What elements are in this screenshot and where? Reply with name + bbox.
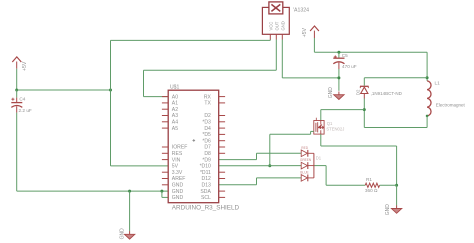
svg-text:RED: RED <box>301 146 308 150</box>
node L1 bottom <box>426 115 429 118</box>
svg-text:A5: A5 <box>172 126 178 132</box>
capacitor C4 <box>11 96 32 113</box>
+5V supply left <box>12 57 28 71</box>
svg-text:VIN: VIN <box>172 157 181 163</box>
svg-text:D13: D13 <box>202 183 212 189</box>
svg-text:470 uF: 470 uF <box>342 64 357 69</box>
svg-text:A3: A3 <box>172 113 178 119</box>
pin A2 left <box>162 108 168 110</box>
wire gate vertical <box>269 134 271 165</box>
node C5/A1324 gnd <box>337 76 340 79</box>
origin cross U$1 <box>193 139 196 142</box>
node gate tap on D10 wire <box>268 164 271 167</box>
ground GND2 below C5 <box>334 92 344 100</box>
svg-text:+5V: +5V <box>302 27 308 37</box>
pin 3.3V left <box>162 171 168 173</box>
wire R1 right lead <box>380 184 397 186</box>
node C5 top <box>337 51 340 54</box>
wire gnd drop <box>129 191 131 231</box>
node source/R1/gnd <box>395 184 398 187</box>
pin D2 right <box>219 115 225 117</box>
svg-text:AREF: AREF <box>172 176 186 182</box>
wire C5 bottom <box>338 69 340 91</box>
node GND rail / gnd drop <box>128 190 131 193</box>
svg-text:D12: D12 <box>202 176 212 182</box>
wire L1 bottom loop <box>426 116 428 128</box>
wire D2 cathode rail <box>364 77 427 79</box>
diode D2 1N914 <box>360 86 369 98</box>
pin IOREF left <box>162 146 168 148</box>
wire D13 to LED blue <box>219 184 257 186</box>
pin RES left <box>162 152 168 154</box>
pin A3 left <box>162 115 168 117</box>
svg-text:GND: GND <box>172 195 184 201</box>
wire A1324 GND down <box>281 40 283 78</box>
resistor R1 360 ohm <box>365 177 380 193</box>
wire +5V stem <box>313 38 315 52</box>
svg-text:IOREF: IOREF <box>172 145 188 151</box>
pin SDA right <box>219 190 225 192</box>
svg-text:GND: GND <box>119 228 125 240</box>
svg-text:5V: 5V <box>172 164 179 170</box>
svg-text:C5: C5 <box>342 53 348 58</box>
wire +5V vertical up <box>110 40 112 90</box>
LED blue (part of D1) <box>301 175 314 182</box>
inductor L1 <box>427 81 431 116</box>
pin TX right <box>219 102 225 104</box>
svg-text:3.3V: 3.3V <box>172 170 183 176</box>
svg-text:A2: A2 <box>172 107 178 113</box>
svg-text:BLUE: BLUE <box>300 170 308 174</box>
op-amp U$1 ARDUINO_R3_SHIELD box <box>168 90 219 203</box>
svg-text:D8: D8 <box>204 151 211 157</box>
svg-text:RX: RX <box>204 94 212 100</box>
wire to 5V pin <box>111 165 169 167</box>
pin *D3 right <box>219 121 225 123</box>
wire A1324 GND to C5 gnd node <box>282 77 339 79</box>
wire D10 to LED green <box>219 165 302 167</box>
node D2 rail / L1 <box>426 76 429 79</box>
svg-text:ARDUINO_R3_SHIELD: ARDUINO_R3_SHIELD <box>172 204 240 211</box>
svg-text:STEN02J: STEN02J <box>326 126 344 131</box>
svg-text:*D5: *D5 <box>202 132 211 138</box>
svg-text:SCL: SCL <box>201 195 211 201</box>
wire C4 bottom to GND rail <box>16 113 18 192</box>
pin *D11 right <box>219 171 225 173</box>
wire bottom GND rail <box>17 190 169 192</box>
wire +5V vertical down to 5V pin <box>110 90 112 166</box>
wire +5V stem to rail <box>16 69 18 90</box>
pin A4 left <box>162 121 168 123</box>
wire +5V top rail <box>314 51 427 53</box>
ground GND1 bottom-left <box>124 231 134 239</box>
wire GND2-GND3 pin tie <box>161 191 163 197</box>
svg-text:RES: RES <box>172 151 183 157</box>
svg-text:L1: L1 <box>435 80 441 85</box>
svg-text:*D3: *D3 <box>202 120 211 126</box>
wire L1 top feed <box>426 52 428 81</box>
wire D9 to LED red <box>219 159 257 161</box>
wire A1324 OUT to A0 <box>275 40 277 71</box>
svg-text:*D9: *D9 <box>202 157 211 163</box>
LED D1 common cathode bus <box>313 153 315 178</box>
pin *D6 right <box>219 140 225 142</box>
pin D8 right <box>219 152 225 154</box>
wire drain rail <box>321 109 365 111</box>
svg-text:*D10: *D10 <box>200 164 211 170</box>
wire C5 top lead <box>338 52 340 58</box>
wire C4 top lead <box>16 90 18 98</box>
sensor U2 A1324 <box>262 2 289 40</box>
pin A5 left <box>162 127 168 129</box>
svg-text:D1: D1 <box>316 156 322 161</box>
svg-text:R1: R1 <box>366 177 372 182</box>
svg-text:GREEN: GREEN <box>300 158 312 162</box>
wire gate from D10 net <box>270 133 311 135</box>
pin GND left <box>162 184 168 186</box>
svg-text:OUT: OUT <box>275 21 280 30</box>
svg-text:GND: GND <box>280 21 285 30</box>
svg-text:GND: GND <box>172 183 184 189</box>
svg-text:A4: A4 <box>172 120 178 126</box>
wire D2 anode to drain node <box>363 99 365 110</box>
transistor Q1 n-mosfet <box>314 118 324 134</box>
LED red (part of D1) <box>301 150 314 157</box>
wire +5V rail to vertical <box>17 89 111 91</box>
svg-text:D7: D7 <box>204 145 211 151</box>
svg-text:U$1: U$1 <box>170 85 180 91</box>
pin A0 left <box>162 96 168 98</box>
pin D12 right <box>219 178 225 180</box>
ground GND3 bottom-right <box>391 205 401 213</box>
svg-text:VCC: VCC <box>269 22 274 31</box>
capacitor C5 470uF <box>333 53 356 69</box>
svg-text:TX: TX <box>204 101 211 107</box>
svg-text:Electromagnet: Electromagnet <box>436 103 466 108</box>
svg-text:2.2 uF: 2.2 uF <box>19 108 32 113</box>
svg-text:GND: GND <box>172 189 184 195</box>
svg-text:A0: A0 <box>172 94 178 100</box>
pin A1 left <box>162 102 168 104</box>
svg-text:SDA: SDA <box>200 189 211 195</box>
svg-text:D4: D4 <box>204 126 211 132</box>
node +5V vertical junction <box>109 89 112 92</box>
svg-text:C4: C4 <box>19 96 25 101</box>
svg-text:+5V: +5V <box>22 61 28 71</box>
svg-text:*D11: *D11 <box>200 170 211 176</box>
wire R1 left lead from LED common <box>326 184 365 186</box>
node drain junction <box>363 108 366 111</box>
pin RX right <box>219 96 225 98</box>
svg-text:'A1324: 'A1324 <box>293 8 309 14</box>
pin D7 right <box>219 146 225 148</box>
LED green (part of D1) <box>301 162 314 169</box>
pin VIN left <box>162 159 168 161</box>
node GND rail / GND pin tie <box>160 190 163 193</box>
svg-text:GND: GND <box>385 204 391 216</box>
pin *D5 right <box>219 133 225 135</box>
pin SCL right <box>219 196 225 198</box>
svg-text:D2: D2 <box>356 89 361 95</box>
+5V supply right <box>302 26 319 38</box>
wire to GND3 <box>396 185 398 205</box>
svg-text:360 Ω: 360 Ω <box>365 188 378 193</box>
svg-text:,1N914BCT-ND: ,1N914BCT-ND <box>371 91 403 96</box>
svg-text:GND: GND <box>328 87 334 99</box>
pin D4 right <box>219 127 225 129</box>
node +5V rail junction left <box>15 89 18 92</box>
svg-text:Q1: Q1 <box>327 121 333 126</box>
svg-text:A1: A1 <box>172 101 178 107</box>
wire source down-right <box>320 134 322 146</box>
svg-text:*D6: *D6 <box>202 138 211 144</box>
wire +5V to A1324 VCC <box>111 39 271 41</box>
pin AREF left <box>162 178 168 180</box>
svg-text:D2: D2 <box>204 113 211 119</box>
